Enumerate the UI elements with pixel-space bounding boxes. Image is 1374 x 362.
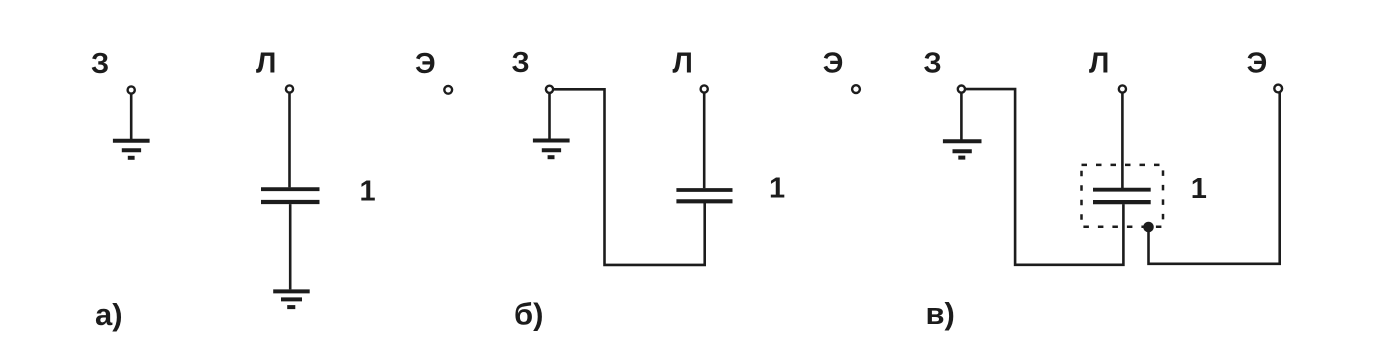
terminal З (fig a): [128, 86, 135, 93]
svg-text:а): а): [95, 297, 123, 332]
wire from terminal З right, down and to capacitor bottom (fig b): [553, 89, 705, 265]
junction dot on shield box (fig v): [1143, 222, 1154, 233]
terminal Э (fig b, unconnected): [852, 85, 860, 93]
ground (fig v, under З): [943, 141, 982, 157]
wire from terminal Л down to capacitor (fig b): [703, 93, 706, 189]
wire from capacitor down to ground (fig a): [289, 204, 292, 289]
svg-text:З: З: [924, 48, 942, 80]
svg-text:1: 1: [360, 176, 376, 208]
wire from terminal З down to ground (fig a): [130, 94, 133, 140]
capacitor 1 (fig v): [1093, 190, 1151, 202]
terminal Л (fig v): [1119, 85, 1126, 92]
ground (fig a, under З): [113, 141, 150, 158]
terminal З (fig v): [958, 86, 965, 93]
wire from terminal З right, down and to capacitor bottom (fig v): [965, 89, 1123, 265]
svg-text:Э: Э: [1247, 48, 1268, 80]
wire from junction dot down and right to terminal Э (fig v): [1149, 92, 1280, 263]
svg-text:б): б): [514, 297, 543, 332]
svg-text:Э: Э: [823, 48, 844, 80]
capacitor 1 (fig b): [676, 190, 732, 201]
terminal Л (fig b): [701, 85, 708, 92]
shield box (dashed) around capacitor (fig v): [1082, 165, 1164, 227]
svg-text:Л: Л: [1089, 48, 1109, 80]
terminal Л (fig a): [286, 85, 293, 92]
wire from terminal З down to ground (fig b): [548, 93, 551, 139]
svg-text:1: 1: [1191, 173, 1207, 205]
terminal Э (fig v): [1274, 85, 1282, 93]
ground (fig a, under capacitor): [273, 291, 310, 307]
svg-text:1: 1: [769, 173, 785, 205]
svg-text:Э: Э: [415, 48, 436, 80]
svg-text:Л: Л: [673, 48, 693, 80]
svg-text:в): в): [926, 296, 955, 331]
ground (fig b, under З): [533, 141, 570, 158]
wire from terminal Л down to capacitor (fig a): [288, 93, 291, 188]
terminal З (fig b): [546, 86, 553, 93]
svg-text:З: З: [512, 47, 530, 79]
svg-text:Л: Л: [256, 48, 276, 80]
wire from terminal З down to ground (fig v): [960, 93, 963, 140]
wire from terminal Л down to capacitor (fig v): [1121, 93, 1124, 188]
terminal Э (fig a, unconnected): [444, 86, 452, 94]
capacitor 1 (fig a): [261, 189, 320, 202]
svg-text:З: З: [91, 48, 109, 80]
